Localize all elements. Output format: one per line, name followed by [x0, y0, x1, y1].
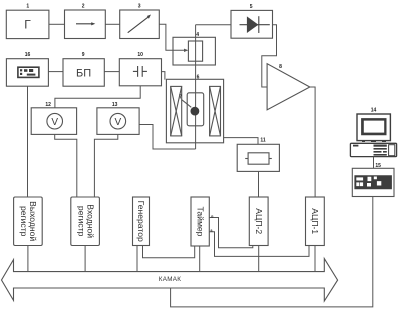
svg-text:5: 5	[250, 4, 253, 10]
svg-text:АЦП-2: АЦП-2	[254, 208, 264, 234]
monitor stand	[362, 141, 386, 143]
voltmeter 12 circle	[47, 113, 63, 129]
svg-text:9: 9	[82, 52, 85, 58]
wire voltmeter 13 to sample line	[139, 125, 196, 150]
block ADC-2 АЦП-2	[249, 197, 268, 246]
svg-text:4: 4	[196, 32, 199, 38]
wire amplifier to ADC-1	[310, 87, 315, 197]
wire frequency counter to output register	[27, 86, 29, 197]
block 16 frequency counter	[6, 59, 48, 86]
svg-text:8: 8	[279, 64, 282, 70]
computer screen	[361, 118, 386, 135]
block 10 capacitor bank	[119, 59, 161, 86]
diode symbol	[240, 16, 270, 33]
wire block3 to resonator 4	[159, 24, 186, 50]
wire block2 to block3	[105, 23, 119, 25]
CAMAC bus arrow	[2, 259, 338, 301]
wire thermostat to ADC-2	[258, 171, 260, 197]
drive bays	[374, 145, 387, 156]
wire diode to amplifier	[262, 25, 277, 87]
magnet outer rectangle	[166, 79, 223, 143]
svg-text:Г: Г	[24, 18, 31, 32]
block 11 thermostat	[237, 144, 279, 171]
op-amp amplifier 8 triangle	[267, 64, 310, 110]
svg-text:16: 16	[25, 52, 31, 58]
interface panel	[354, 175, 392, 189]
svg-text:7: 7	[179, 94, 182, 100]
sample circle 7	[191, 107, 200, 116]
wire interface to bus loop	[171, 197, 373, 307]
svg-text:Таймер: Таймер	[196, 207, 206, 237]
block 9 power supply БП	[63, 59, 104, 86]
wire capacitor block to magnet	[162, 72, 165, 80]
svg-text:1: 1	[26, 4, 29, 10]
svg-text:АЦП-1: АЦП-1	[310, 208, 320, 234]
svg-text:КАМАК: КАМАК	[159, 276, 182, 283]
wire computer to interface	[373, 157, 375, 169]
svg-text:Генератор: Генератор	[136, 201, 146, 242]
wire voltmeter 12 to input register	[55, 134, 77, 197]
wire ADC-1 to bus	[314, 246, 316, 272]
block 1 microwave generator Г	[6, 10, 49, 38]
sample tube	[187, 93, 204, 126]
svg-text:V: V	[51, 117, 58, 128]
voltmeter block 13	[97, 108, 139, 135]
magnet coil left	[171, 86, 182, 135]
resonator inner coil rectangle	[188, 41, 202, 61]
floppy slot	[353, 145, 358, 147]
unit right panel	[389, 145, 395, 156]
arrowhead into resonator	[184, 49, 188, 52]
block output register Выходной регистр	[14, 197, 43, 246]
diagonal arrow symbol in block 3	[128, 15, 151, 33]
magnet coil right	[210, 86, 221, 135]
svg-text:БП: БП	[76, 67, 91, 79]
svg-text:3: 3	[138, 3, 141, 9]
pointer line to sample	[182, 100, 191, 108]
wire 16 to БП	[48, 71, 63, 73]
wire magnet to thermostat 11	[224, 138, 258, 145]
arrow symbol in block 2	[76, 22, 95, 25]
wire capacitor block to voltmeter 12	[55, 86, 140, 108]
wire voltmeter 13 to input register	[94, 134, 117, 197]
wire timer to ADC-2	[209, 218, 253, 248]
wire generator to timer	[143, 246, 195, 258]
wire sample line vertical (to diode feed)	[195, 25, 197, 149]
svg-text:регистр: регистр	[19, 206, 29, 237]
svg-text:14: 14	[371, 108, 377, 114]
voltmeter 13 circle	[110, 113, 126, 129]
svg-text:15: 15	[375, 163, 381, 169]
frequency counter icon	[18, 67, 39, 77]
wire block1 to block2	[49, 23, 65, 25]
svg-text:6: 6	[197, 75, 200, 81]
svg-text:регистр: регистр	[76, 206, 86, 237]
svg-text:2: 2	[82, 3, 85, 9]
block input register Входной регистр	[71, 197, 100, 246]
wire timer to bus	[199, 246, 201, 272]
voltmeter block 12	[31, 108, 76, 135]
block timer Таймер	[191, 197, 209, 246]
wire timer to ADC-1	[209, 232, 309, 257]
block 2 isolator	[65, 10, 106, 39]
svg-text:V: V	[114, 117, 121, 128]
block 3 attenuator	[120, 10, 160, 39]
thermometer element symbol	[245, 153, 272, 164]
svg-text:10: 10	[137, 52, 143, 58]
block 5 diode detector	[231, 10, 273, 38]
capacitor symbol	[133, 66, 147, 77]
svg-text:11: 11	[260, 138, 266, 144]
block ADC-1 АЦП-1	[306, 197, 325, 246]
computer system unit	[350, 143, 396, 156]
svg-text:13: 13	[112, 102, 118, 108]
wire output register to bus	[27, 246, 29, 272]
svg-text:12: 12	[45, 102, 51, 108]
wire input register to bus	[84, 246, 86, 272]
computer 14 monitor	[357, 114, 390, 141]
wire to diode detector	[196, 24, 231, 26]
svg-text:а: а	[211, 228, 213, 232]
block sweep generator Генератор	[133, 197, 150, 246]
block 4 resonator outer	[173, 37, 215, 65]
wire ADC-2 to bus	[258, 246, 260, 272]
block 15 interface	[352, 168, 394, 196]
wire generator to bus	[136, 246, 138, 272]
wire БП to capacitor block	[104, 71, 119, 73]
